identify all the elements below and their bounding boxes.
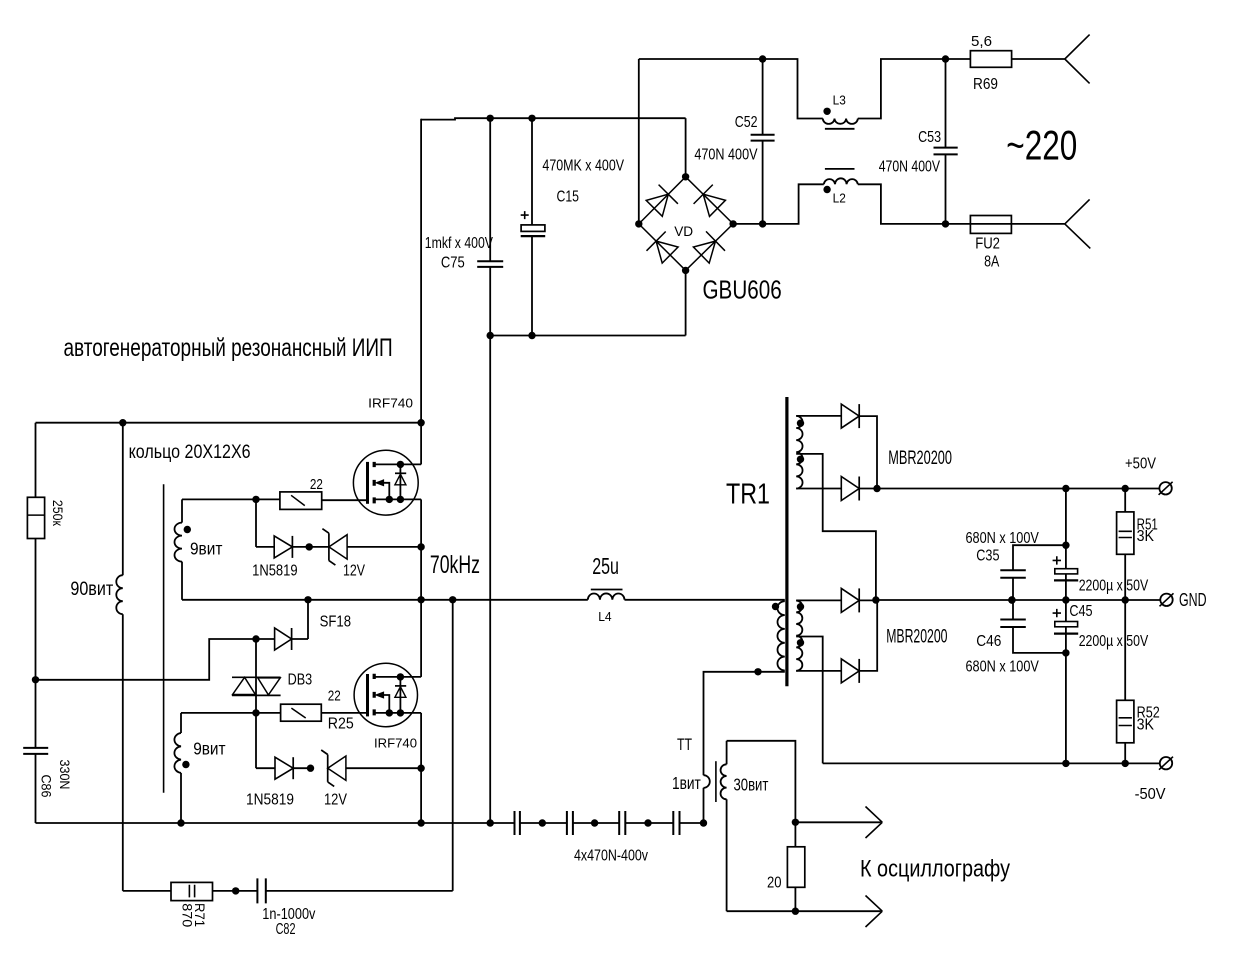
svg-text:L4: L4	[598, 609, 611, 624]
svg-text:GBU606: GBU606	[703, 275, 782, 305]
wire bottom rail y823	[36, 822, 704, 824]
wire top rail y422 from left rail to Q1 drain bus	[36, 422, 422, 424]
node on TR1 primary bottom wire	[754, 668, 761, 675]
node SF18 anode / DB3 junction	[252, 635, 259, 642]
wire zener row upper y547	[256, 546, 421, 548]
svg-text:~220: ~220	[1006, 122, 1077, 169]
winding TT primary 1 turn	[704, 775, 710, 788]
resistor R69	[970, 51, 1011, 68]
node lower 9turn winding bottom	[177, 819, 184, 826]
inductor 9 turns lower winding	[180, 713, 182, 733]
winding TR1 secondary lower pair	[796, 601, 802, 671]
svg-text:C15: C15	[557, 188, 580, 205]
svg-text:12V: 12V	[343, 563, 366, 580]
wire bridge bottom vertex to DC- rail	[685, 270, 687, 335]
node DC+ / C15 junction	[528, 115, 535, 122]
wire Q2 drain feed	[420, 600, 422, 677]
fuse FU2	[970, 216, 1011, 234]
svg-text:GND: GND	[1179, 590, 1207, 610]
wire -50V rail	[823, 762, 1160, 764]
wire HV bus down left side x421	[420, 119, 422, 423]
wire C75 branch down x490	[489, 336, 491, 824]
node between R71 and C82	[232, 887, 239, 894]
svg-text:22: 22	[310, 477, 323, 493]
svg-text:IRF740: IRF740	[374, 735, 417, 750]
svg-text:MBR20200: MBR20200	[888, 448, 952, 469]
zener diode 12V lower	[328, 756, 346, 780]
capacitor C75	[489, 118, 491, 335]
svg-text:R25: R25	[328, 716, 354, 733]
wire lower center tap to -50V rail	[796, 637, 823, 764]
winding TT secondary 30 turns	[726, 741, 728, 765]
inductor L3	[823, 119, 858, 124]
wire R71-C82 row y891	[123, 890, 453, 892]
capacitor series bank 2	[567, 811, 573, 835]
wire gate row lower y713	[181, 712, 366, 714]
svg-text:-50V: -50V	[1135, 786, 1167, 803]
svg-text:TR1: TR1	[726, 479, 770, 511]
node Q1 drain bus top junction	[417, 419, 424, 426]
wire secondary lower bottom lead to diode	[796, 600, 877, 671]
svg-text:330N: 330N	[57, 760, 73, 790]
wire 1N5819 branch down	[255, 499, 257, 547]
wire left rail x35 down	[35, 423, 37, 680]
diode 1N5819 lower	[275, 757, 293, 779]
svg-text:TT: TT	[677, 735, 692, 754]
wire gate row upper y499	[182, 498, 366, 501]
wire DC+ rail y118	[421, 118, 685, 119]
inductor L4 25u	[588, 593, 625, 599]
svg-text:2200µ x 50V: 2200µ x 50V	[1079, 633, 1149, 650]
node Q1 source junction on mid rail	[417, 596, 424, 603]
diode 1N5819 upper	[274, 536, 292, 558]
inductor 90 turns winding	[122, 423, 124, 576]
svg-text:680N x 100V: 680N x 100V	[966, 530, 1040, 547]
svg-text:кольцо 20Х12Х6: кольцо 20Х12Х6	[129, 441, 251, 463]
resistor R52 3K	[1124, 600, 1126, 763]
node 90turn winding top junction	[119, 419, 126, 426]
wire TT secondary top to resistor 20	[727, 741, 796, 847]
wire Q2 source bus down	[420, 713, 422, 823]
svg-text:22: 22	[328, 689, 341, 705]
svg-text:+50V: +50V	[1125, 456, 1157, 473]
wire to oscilloscope arrow 1	[795, 821, 881, 823]
wire zener row lower y768	[256, 767, 421, 769]
resistor R71 870	[171, 882, 213, 900]
capacitor C53	[945, 59, 947, 224]
svg-text:R71: R71	[192, 903, 207, 927]
svg-text:3K: 3K	[1137, 716, 1155, 733]
wire mid rail y600	[182, 599, 785, 601]
node C82 branch junction on mid rail	[449, 596, 456, 603]
svg-text:3K: 3K	[1137, 528, 1155, 545]
transformer core line	[163, 484, 165, 792]
svg-text:12V: 12V	[324, 792, 348, 809]
svg-text:C75: C75	[441, 255, 465, 272]
diode MBR20200 D2	[841, 477, 859, 501]
node DB3 / R25 junction	[252, 709, 259, 716]
svg-text:К осциллографу: К осциллографу	[860, 856, 1010, 883]
svg-text:DB3: DB3	[288, 672, 313, 689]
capacitor C45 upper 2200u	[1065, 489, 1067, 601]
node SF18 junction on mid rail	[304, 596, 311, 603]
wire secondary upper top lead to diode	[796, 416, 877, 489]
node DC+ / C75 junction	[487, 115, 494, 122]
capacitor C46	[1013, 600, 1066, 653]
diode MBR20200 D4	[841, 659, 859, 683]
svg-text:L3: L3	[833, 93, 846, 108]
svg-text:470N 400V: 470N 400V	[879, 159, 941, 176]
inductor 9 turns upper winding	[181, 499, 183, 522]
wire to oscilloscope arrow 2	[727, 910, 881, 912]
capacitor C52	[762, 59, 764, 224]
wire GND rail	[876, 599, 1160, 601]
capacitor C82	[257, 878, 265, 903]
wire secondary lower top lead to diode	[796, 599, 876, 601]
capacitor C86	[35, 680, 37, 823]
terminal -50V	[1160, 757, 1172, 769]
svg-text:C35: C35	[976, 548, 999, 565]
wire AC line1 top rail from bridge to R69	[639, 59, 971, 119]
svg-text:1вит: 1вит	[672, 773, 701, 793]
node bridge top vertex	[682, 173, 689, 180]
node AC line1 / C53 top junction	[942, 55, 949, 62]
svg-text:C86: C86	[39, 775, 55, 798]
diac DB3	[232, 677, 281, 695]
svg-text:MBR20200: MBR20200	[886, 627, 947, 648]
capacitor series bank 1	[515, 811, 520, 835]
wire secondary upper bottom lead to diode	[796, 488, 877, 490]
diode MBR20200 D3	[841, 588, 859, 612]
terminal +50V	[1159, 482, 1171, 494]
node R22 / 1N5819 branch junction	[252, 496, 259, 503]
svg-text:70kHz: 70kHz	[430, 551, 480, 579]
winding TR1 primary	[777, 601, 784, 670]
svg-text:C53: C53	[918, 129, 941, 146]
capacitor C35	[1013, 545, 1066, 600]
node +50V rail start	[873, 485, 880, 492]
wire 1N5819 lower branch down	[255, 713, 257, 768]
node AC line2 / C53 bottom junction	[942, 220, 949, 227]
svg-text:2200µ x 50V: 2200µ x 50V	[1079, 577, 1149, 594]
node zener row / source bus junction lower	[417, 765, 424, 772]
svg-text:автогенераторный резонансный И: автогенераторный резонансный ИИП	[64, 334, 393, 362]
svg-text:C45: C45	[1069, 603, 1092, 620]
svg-text:9вит: 9вит	[193, 739, 225, 759]
svg-text:250к: 250к	[50, 500, 66, 527]
svg-text:4x470N-400v: 4x470N-400v	[574, 848, 648, 865]
connector plug pin line2	[1065, 199, 1091, 248]
node bridge bottom vertex	[682, 267, 689, 274]
node DC- / C15 junction	[528, 332, 535, 339]
node C75 branch on bottom rail	[487, 819, 494, 826]
zener diode 12V upper	[329, 535, 347, 559]
capacitor C15 electrolytic	[531, 118, 533, 335]
wire bridge left vertex to AC top rail	[638, 59, 640, 224]
wire Q1 source bus down x421	[420, 499, 422, 599]
node zener row / source bus junction upper	[417, 543, 424, 550]
capacitor series bank 4	[673, 811, 679, 835]
svg-text:C82: C82	[276, 921, 296, 938]
diode bridge VD GBU606	[639, 177, 733, 271]
node GND rail start	[872, 596, 879, 603]
wire DB3 branch vertical	[255, 639, 257, 713]
diode MBR20200 D1	[841, 404, 859, 428]
svg-text:20: 20	[767, 874, 782, 891]
svg-text:L2: L2	[833, 190, 846, 205]
node oscilloscope line1 junction	[792, 819, 799, 826]
node AC line2 / C52 bottom junction	[759, 220, 766, 227]
diode SF18	[275, 628, 292, 650]
svg-text:VD: VD	[674, 223, 693, 239]
node bridge right vertex	[729, 220, 736, 227]
resistor R51 3K	[1124, 489, 1126, 601]
svg-text:R69: R69	[973, 76, 998, 93]
wire +50V rail	[877, 488, 1159, 490]
svg-text:1N5819: 1N5819	[246, 792, 294, 809]
svg-text:8A: 8A	[984, 254, 1000, 271]
svg-text:FU2: FU2	[975, 236, 1000, 253]
TT core line	[715, 761, 717, 802]
wire AC line1 from R69 to plug	[1012, 58, 1065, 60]
wire DC- rail y335	[490, 335, 685, 337]
svg-text:SF18: SF18	[320, 613, 352, 630]
wire C82 to mid rail x452	[452, 600, 454, 891]
svg-text:470MK x 400V: 470MK x 400V	[542, 157, 624, 174]
svg-text:470N 400V: 470N 400V	[694, 146, 758, 163]
transistor Q2 IRF740	[354, 663, 421, 726]
node left rail / SF18 branch junction	[32, 676, 39, 683]
node oscilloscope line2 junction	[792, 908, 799, 915]
wire upper center tap to GND node	[796, 454, 876, 600]
svg-text:680N x 100V: 680N x 100V	[966, 658, 1040, 675]
svg-text:C52: C52	[735, 114, 758, 131]
capacitor series bank 3	[619, 811, 625, 835]
transistor Q1 IRF740	[353, 450, 421, 515]
winding TR1 secondary upper pair	[796, 416, 802, 489]
node AC line1 / C52 top junction	[759, 55, 766, 62]
terminal GND	[1160, 594, 1172, 606]
svg-text:C46: C46	[976, 633, 1001, 650]
svg-text:30вит: 30вит	[734, 775, 769, 795]
svg-text:5,6: 5,6	[971, 34, 992, 50]
wire resistor 20 bottom	[794, 887, 796, 911]
svg-text:90вит: 90вит	[70, 578, 113, 600]
transformer TR1 core	[785, 397, 788, 686]
connector plug pin line1	[1065, 35, 1090, 84]
wire TR1 primary bottom to TT	[704, 672, 785, 775]
capacitor C45 lower 2200u	[1065, 600, 1067, 763]
node DC- / C75 junction	[487, 332, 494, 339]
resistor 250k	[27, 497, 44, 538]
wire AC line2 bottom rail from bridge to FU2	[733, 184, 970, 224]
svg-text:9вит: 9вит	[190, 538, 222, 558]
node Q2 source on bottom rail	[417, 819, 424, 826]
svg-text:1mkf x 400V: 1mkf x 400V	[425, 235, 494, 252]
svg-text:25u: 25u	[592, 553, 619, 579]
wire Q1 drain feed	[420, 423, 422, 465]
wire bridge top vertex to DC+ rail	[685, 118, 687, 177]
node bridge left vertex	[635, 220, 642, 227]
resistor R22 22ohm gate	[280, 492, 322, 510]
inductor L2	[824, 178, 858, 184]
resistor R25 22ohm gate	[281, 704, 322, 721]
svg-text:IRF740: IRF740	[368, 396, 413, 411]
resistor 20 ohm	[787, 847, 804, 888]
wire SF18 row y639	[36, 600, 309, 680]
svg-text:1N5819: 1N5819	[252, 563, 298, 580]
